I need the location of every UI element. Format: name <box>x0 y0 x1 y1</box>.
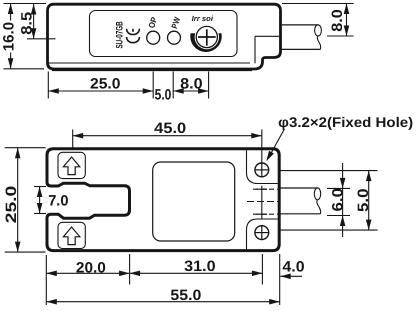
cable (top view) <box>281 187 318 189</box>
fixed hole bottom <box>255 226 269 240</box>
cable break ellipse <box>314 188 320 200</box>
fixed hole leader <box>270 129 285 156</box>
dimension 7.0 <box>39 187 41 214</box>
svg-text:8.0: 8.0 <box>180 76 203 93</box>
dimension 25.0 extension lines <box>5 147 46 149</box>
svg-text:5.0: 5.0 <box>355 189 372 213</box>
dimension 20.0 <box>46 272 262 274</box>
dimension 8.5 <box>33 4 35 39</box>
beam direction box (bottom) <box>58 222 85 248</box>
dimension 5.0 extension lines <box>279 170 378 172</box>
svg-text:φ3.2×2(Fixed Hole): φ3.2×2(Fixed Hole) <box>278 114 413 130</box>
svg-text:8.0: 8.0 <box>329 9 346 32</box>
sensor body outline with mounting slot <box>47 149 279 251</box>
dimension 45.0 <box>73 135 262 137</box>
fixed hole top boss outline <box>247 150 279 183</box>
svg-text:55.0: 55.0 <box>170 287 201 304</box>
dimension 25.0 <box>48 90 153 92</box>
fixed hole top <box>255 163 269 177</box>
case parting line <box>49 62 250 64</box>
svg-text:25.0: 25.0 <box>3 186 20 224</box>
dimension 8.5 extension line <box>27 38 56 40</box>
PW LED circle <box>168 31 181 44</box>
cable break squiggle <box>317 200 321 214</box>
dimension 31.0 <box>130 271 141 277</box>
beam arrow (bottom) <box>63 227 79 245</box>
svg-text:8.5: 8.5 <box>18 12 35 35</box>
hidden cable lines inside body <box>253 188 278 190</box>
fixed hole bottom boss outline <box>247 219 279 249</box>
svg-text:Irr soi: Irr soi <box>192 14 214 23</box>
dimension 45.0 extension lines <box>72 129 74 148</box>
beam direction box (top) <box>58 152 85 178</box>
OP LED circle <box>147 31 160 44</box>
dimension 16.0 extension lines <box>4 3 47 5</box>
dimension 7.0 extension stubs <box>34 186 46 188</box>
svg-text:31.0: 31.0 <box>184 258 216 275</box>
beam arrow (top) <box>63 157 79 175</box>
cable (side view) <box>282 24 319 26</box>
svg-text:20.0: 20.0 <box>76 259 106 276</box>
potentiometer cross slot <box>198 36 216 38</box>
svg-text:45.0: 45.0 <box>154 120 186 137</box>
dimension 8.0 (right, cable height) extension lines <box>282 3 354 5</box>
cable anchor marks <box>261 186 263 219</box>
body bottom lip emphasis <box>52 69 252 71</box>
svg-text:25.0: 25.0 <box>90 76 121 93</box>
svg-text:7.0: 7.0 <box>48 192 68 209</box>
svg-text:16.0: 16.0 <box>0 22 17 51</box>
dimension 5.0 <box>368 171 370 231</box>
dimension 8.0 <box>173 88 184 94</box>
cable boot hidden outline <box>255 35 280 37</box>
dimension 16.0 <box>10 4 12 21</box>
CE mark (rotated, E on top with tick, C below) <box>127 29 140 35</box>
cable break ellipse <box>315 25 322 36</box>
label recess rectangle <box>153 162 235 241</box>
potentiometer shell (black half disc) <box>190 33 222 52</box>
label panel <box>90 11 238 57</box>
dimension 8.0 right <box>346 4 348 37</box>
dimension 4.0 <box>280 275 302 277</box>
svg-text:6.0: 6.0 <box>329 188 346 212</box>
svg-text:5.0: 5.0 <box>155 87 172 104</box>
svg-text:4.0: 4.0 <box>282 259 304 276</box>
dimension chain 20.0 / 31.0 extension lines <box>45 255 47 285</box>
dimension 55.0 <box>45 285 47 306</box>
dimension 6.0 extension lines <box>327 187 350 189</box>
cable break squiggle <box>317 36 320 50</box>
sensor body outline (side view) <box>48 4 281 69</box>
dimension 25.0 <box>17 148 19 252</box>
svg-text:SU-07GB: SU-07GB <box>114 21 125 48</box>
dimension chain 25.0 / 5.0 / 8.0 extension lines <box>47 72 49 99</box>
dimension 6.0 <box>342 163 344 237</box>
potentiometer screw circle <box>196 26 217 47</box>
